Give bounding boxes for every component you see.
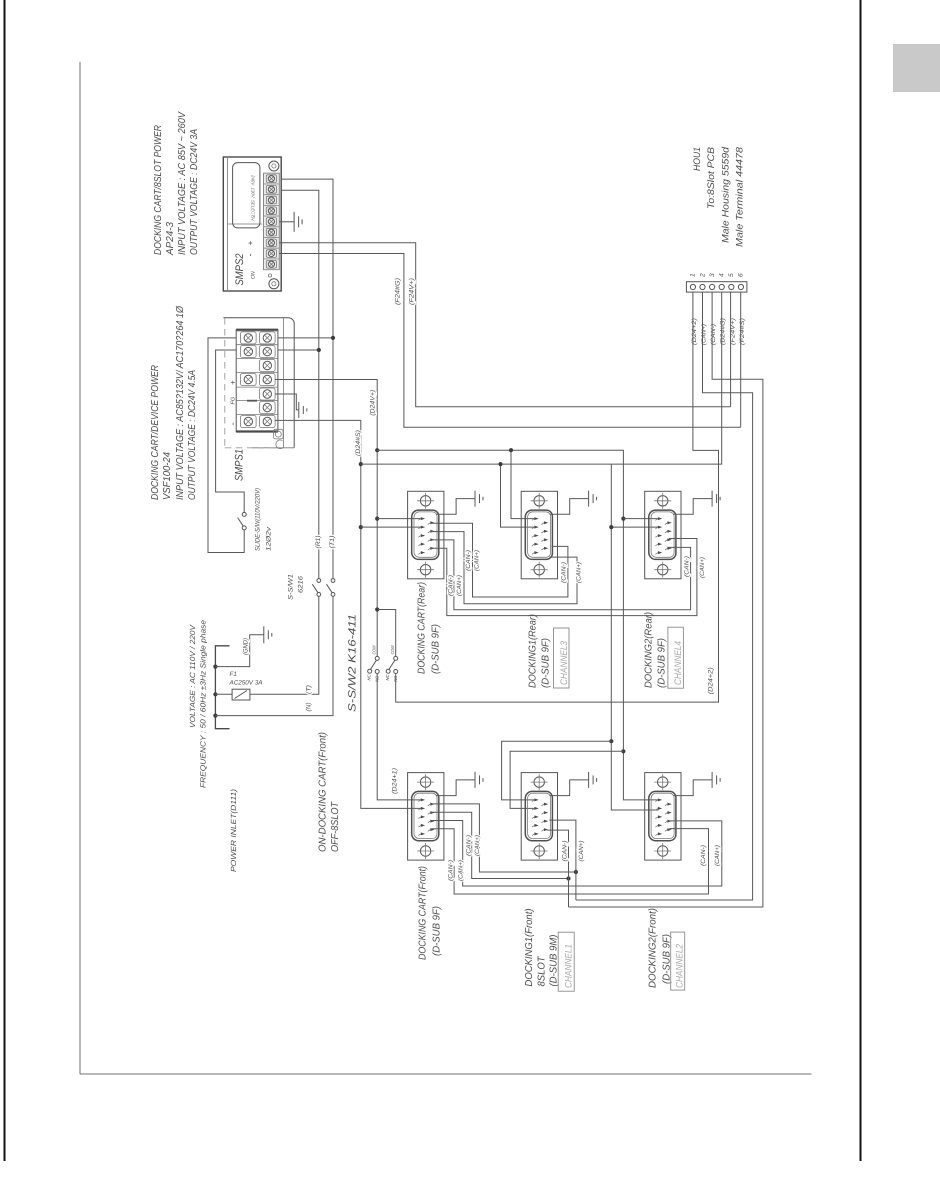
svg-text:DOCKING CART(Front): DOCKING CART(Front) xyxy=(418,866,429,960)
svg-text:CHANNEL3: CHANNEL3 xyxy=(559,640,570,685)
svg-text:HOU1: HOU1 xyxy=(692,147,703,171)
svg-text:DOCKING CART(Rear): DOCKING CART(Rear) xyxy=(417,582,428,674)
shell earth ground at J5 DOCKING1(Front) xyxy=(550,772,597,796)
wire: D24V+ distribution net xyxy=(377,448,625,751)
wire: S-S/W2 pole A NO to front DOCKING CART pin1 (D24+1) xyxy=(377,674,421,800)
svg-text:(CAN-): (CAN-) xyxy=(466,835,473,856)
connector HOU1 6-pin header xyxy=(686,282,747,292)
earth ground at SMPS2 xyxy=(294,212,302,232)
svg-text:(CAN-): (CAN-) xyxy=(700,845,707,866)
svg-text:F1: F1 xyxy=(230,671,237,678)
earth ground at power inlet xyxy=(264,626,272,643)
svg-text:(D-SUB 9F): (D-SUB 9F) xyxy=(657,638,668,688)
wire: front CAN bus J4-J6 pair xyxy=(432,821,722,895)
svg-text:6216: 6216 xyxy=(298,576,305,593)
label J4 xyxy=(418,866,443,960)
svg-text:(D24+2): (D24+2) xyxy=(691,318,698,345)
svg-text:CHANNEL2: CHANNEL2 xyxy=(675,943,686,988)
wire: inlet L to fuse xyxy=(215,693,232,695)
svg-text:(CAN-): (CAN-) xyxy=(710,324,717,345)
switch S-S/W1 pole A xyxy=(312,579,320,597)
wire: fuse to switch S-S/W1 pole A (T) xyxy=(250,596,319,694)
svg-text:3: 3 xyxy=(709,273,716,277)
svg-text:6: 6 xyxy=(738,273,745,277)
svg-text:OUTPUT VOLTAGE : DC24V 4.5A: OUTPUT VOLTAGE : DC24V 4.5A xyxy=(187,370,198,500)
svg-text:-: - xyxy=(245,254,255,257)
svg-text:1: 1 xyxy=(690,273,697,277)
wire: SMPS1 L input to slide switch xyxy=(208,338,244,553)
svg-text:(T1): (T1) xyxy=(329,536,336,549)
svg-text:(CAN+): (CAN+) xyxy=(701,324,708,345)
svg-text:COM: COM xyxy=(390,645,395,654)
wire: S-S/W2 pole B NO to HOU1 pin1 (D24+2) xyxy=(396,292,719,702)
connector J6 DOCKING2(Front) D-SUB 9 xyxy=(645,773,681,861)
switch S-S/W1 pole B xyxy=(327,579,335,597)
switch S-S/W2 pole A xyxy=(368,656,380,673)
SMPS1 terminal block xyxy=(236,330,278,432)
label J2 xyxy=(528,614,571,688)
svg-text:S-S/W1: S-S/W1 xyxy=(288,574,295,600)
wire: front CAN bus J4-J5 pair xyxy=(432,804,579,881)
wire: SMPS2 AC input L (R1 rail) xyxy=(281,190,319,578)
svg-text:ON: ON xyxy=(251,271,257,279)
svg-text:(F24#S): (F24#S) xyxy=(739,318,746,345)
shell earth ground at J6 DOCKING2(Front) xyxy=(673,772,720,796)
svg-text:(D24V+): (D24V+) xyxy=(370,390,377,416)
svg-text:(CAN-): (CAN-) xyxy=(561,841,568,862)
svg-text:(CAN+): (CAN+) xyxy=(576,562,583,583)
wire: SMPS1 T tap junction xyxy=(278,336,335,340)
svg-text:NC: NC xyxy=(385,674,390,681)
shell earth ground at J3 DOCKING2(Rear) xyxy=(673,491,720,515)
wire: HOU1 pin5 stub xyxy=(730,292,732,407)
svg-text:12Ø2v: 12Ø2v xyxy=(266,526,273,551)
HOU1 text block xyxy=(692,146,746,247)
drawing frame bottom edge xyxy=(80,1073,812,1075)
slide switch SLIDE-S/W contacts xyxy=(238,512,247,530)
wire: SMPS1 0V rail D24#S xyxy=(275,420,422,808)
SMPS2 terminal strip xyxy=(264,173,280,269)
svg-text:+: + xyxy=(246,241,255,246)
svg-text:To:8Slot PCB: To:8Slot PCB xyxy=(706,146,717,209)
SMPS1 bottom-right screw detail xyxy=(274,429,284,448)
svg-text:DOCKING2(Rear): DOCKING2(Rear) xyxy=(644,612,655,688)
svg-text:(CAN+): (CAN+) xyxy=(578,841,585,862)
wire: inlet GND to earth xyxy=(215,635,263,667)
wire: SMPS2 earth terminal xyxy=(279,221,294,223)
wire: SMPS2 +24V F24V+ to HOU1 pin5 xyxy=(279,243,730,407)
label J5 xyxy=(524,909,575,992)
svg-text:(D-SUB 9F): (D-SUB 9F) xyxy=(431,624,442,674)
wire: rear DOCKING2 feeds xyxy=(621,519,658,800)
svg-text:(D24#S): (D24#S) xyxy=(355,430,362,456)
wire: front J5 CAN stubs to bus xyxy=(547,820,576,907)
label J1 xyxy=(417,582,442,674)
svg-text:CHANNEL1: CHANNEL1 xyxy=(564,944,575,988)
wire: SMPS1 FG to earth xyxy=(275,394,299,410)
svg-text:(D24+2): (D24+2) xyxy=(708,667,715,694)
wire: D24#G distribution net to HOU1 pin4 xyxy=(361,292,722,810)
wire: front DOCKING1 feeds xyxy=(502,741,624,808)
label J3 xyxy=(644,612,685,688)
SMPS1 title text block xyxy=(150,305,198,500)
svg-text:NC: NC xyxy=(367,674,372,681)
drawing frame left edge xyxy=(79,62,81,1074)
svg-text:(CAN+): (CAN+) xyxy=(714,845,721,866)
svg-text:8SLOT: 8SLOT xyxy=(537,956,548,987)
svg-text:4: 4 xyxy=(719,273,726,277)
wire: SMPS2 0V F24#G to HOU1 pin6 xyxy=(279,254,741,428)
svg-text:(CAN-): (CAN-) xyxy=(447,860,454,881)
svg-text:OFF-8SLOT: OFF-8SLOT xyxy=(330,801,341,852)
svg-text:FREQUENCY : 50 / 60Hz ±3Hz Sin: FREQUENCY : 50 / 60Hz ±3Hz Single phase xyxy=(199,620,208,788)
power supply SMPS1 (VSF100-24) outline xyxy=(223,318,294,448)
wire: rear CAN bus J1-J2 pair xyxy=(432,523,578,604)
svg-text:(CAN+): (CAN+) xyxy=(456,575,463,596)
HOU1 net labels xyxy=(691,318,746,345)
SMPS2 mounting screw bottom xyxy=(268,274,279,289)
wire: rear CAN bus J1-J3 pair xyxy=(432,539,697,616)
svg-text:(D24#G): (D24#G) xyxy=(720,318,727,345)
svg-text:S-S/W2 K16-411: S-S/W2 K16-411 xyxy=(347,614,359,712)
svg-text:ON-DOCKING CART(Front): ON-DOCKING CART(Front) xyxy=(318,732,329,852)
svg-text:DOCKING2(Front): DOCKING2(Front) xyxy=(648,908,659,988)
page right border line xyxy=(860,0,862,1161)
wire: inlet N to switch S-S/W1 pole B (N) xyxy=(215,596,333,715)
svg-text:5V: 5V xyxy=(251,216,256,222)
connector J4 DOCKING CART(Front) D-SUB 9 xyxy=(408,773,444,861)
svg-text:Male Terminal 44478: Male Terminal 44478 xyxy=(735,146,746,247)
power supply SMPS2 (AP24-3) body xyxy=(223,157,281,291)
wire: SMPS1 +24V rail D24V+ xyxy=(275,380,379,657)
connector J5 DOCKING1(Front) D-SUB 9 xyxy=(521,773,557,861)
svg-text:(D24+1): (D24+1) xyxy=(392,768,399,794)
svg-text:SLIDE-S/W(110V/220V): SLIDE-S/W(110V/220V) xyxy=(255,488,262,551)
svg-text:VOLTAGE : AC 110V / 220V: VOLTAGE : AC 110V / 220V xyxy=(188,624,197,728)
HOU1 pin numbers xyxy=(690,273,745,278)
svg-text:-: - xyxy=(228,423,238,426)
svg-text:(F24#G): (F24#G) xyxy=(395,278,402,305)
svg-text:Male Housing 5559d: Male Housing 5559d xyxy=(721,146,732,243)
svg-text:(D-SUB 9F): (D-SUB 9F) xyxy=(432,906,443,956)
wire: HOU1 pin3 CAN- rail xyxy=(569,292,763,907)
shell earth ground at J2 DOCKING1(Rear) xyxy=(550,491,597,515)
svg-text:130V: 130V xyxy=(251,188,256,199)
fuse F1 xyxy=(232,689,250,700)
page left border line xyxy=(4,0,6,1161)
svg-text:(CAN-): (CAN-) xyxy=(684,556,691,577)
svg-text:5: 5 xyxy=(728,273,735,277)
shell earth ground at J4 DOCKING CART(Front) xyxy=(436,772,483,796)
wire: HOU1 pin2 CAN+ rail xyxy=(576,292,753,900)
svg-text:(CAN+): (CAN+) xyxy=(474,835,481,856)
svg-text:SMPS2: SMPS2 xyxy=(234,254,246,286)
svg-text:(T): (T) xyxy=(306,685,313,694)
svg-text:AC250V 3A: AC250V 3A xyxy=(229,680,263,687)
svg-text:DOCKING CART/8SLOT POWER: DOCKING CART/8SLOT POWER xyxy=(153,125,164,255)
wire: HOU1 pin6 stub xyxy=(740,292,742,427)
svg-text:SMPS1: SMPS1 xyxy=(234,449,246,481)
svg-text:COM: COM xyxy=(371,645,376,654)
svg-text:(CAN+): (CAN+) xyxy=(457,860,464,881)
SMPS2 title text block xyxy=(153,111,200,256)
wire: SMPS1 N input to slide switch xyxy=(216,350,245,512)
svg-text:DOCKING1(Front): DOCKING1(Front) xyxy=(524,909,535,987)
svg-text:DOCKING CART/DEVICE POWER: DOCKING CART/DEVICE POWER xyxy=(150,365,161,500)
svg-text:(F24V+): (F24V+) xyxy=(409,278,416,305)
svg-text:FG: FG xyxy=(231,396,237,404)
svg-text:INPUT VOLTAGE : AC 85V ~ 260V: INPUT VOLTAGE : AC 85V ~ 260V xyxy=(177,111,188,255)
svg-text:AP24-3: AP24-3 xyxy=(165,222,176,256)
svg-text:(CAN-): (CAN-) xyxy=(561,562,568,583)
svg-text:240V: 240V xyxy=(251,174,256,186)
power inlet connector bracket xyxy=(213,646,229,729)
shell earth ground at J1 DOCKING CART(Rear) xyxy=(436,491,483,515)
svg-text:INPUT VOLTAGE : AC85?132V/ AC1: INPUT VOLTAGE : AC85?132V/ AC170?264 1Ø xyxy=(175,305,186,500)
svg-text:(GND): (GND) xyxy=(243,638,250,655)
connector J2 DOCKING1(Rear) D-SUB 9 xyxy=(521,491,557,579)
wire: SMPS1 R tap junction xyxy=(278,348,321,352)
svg-text:(R1): (R1) xyxy=(315,536,322,549)
svg-text:(N): (N) xyxy=(306,703,313,712)
svg-text:2: 2 xyxy=(699,273,706,278)
svg-text:(CAN+): (CAN+) xyxy=(473,550,480,571)
label J6 xyxy=(648,908,686,990)
wire: SMPS2 AC input N (T1 rail) xyxy=(281,179,333,578)
svg-text:(CAN-): (CAN-) xyxy=(447,575,454,596)
switch S-S/W2 pole B xyxy=(377,610,398,674)
svg-text:VSF100-24: VSF100-24 xyxy=(162,452,173,500)
connector J1 DOCKING CART(Rear) D-SUB 9 xyxy=(408,491,444,579)
svg-text:POWER INLET(D111): POWER INLET(D111) xyxy=(229,788,238,872)
svg-text:+: + xyxy=(229,380,238,385)
svg-text:(CAN+): (CAN+) xyxy=(699,557,706,578)
svg-text:(D-SUB 9F): (D-SUB 9F) xyxy=(541,638,552,688)
svg-text:(CAN-): (CAN-) xyxy=(465,550,472,571)
corner gray box xyxy=(893,44,940,92)
SMPS2 panel tiny labels xyxy=(251,174,256,222)
earth ground at SMPS1 xyxy=(299,402,307,418)
svg-text:CHANNEL4: CHANNEL4 xyxy=(673,641,684,685)
connector J3 DOCKING2(Rear) D-SUB 9 xyxy=(645,491,681,579)
SMPS2 mounting screw top xyxy=(269,161,279,171)
svg-text:OUTPUT VOLTAGE : DC24V 3A: OUTPUT VOLTAGE : DC24V 3A xyxy=(189,129,200,255)
svg-text:DOCKING1(Rear): DOCKING1(Rear) xyxy=(528,614,539,688)
